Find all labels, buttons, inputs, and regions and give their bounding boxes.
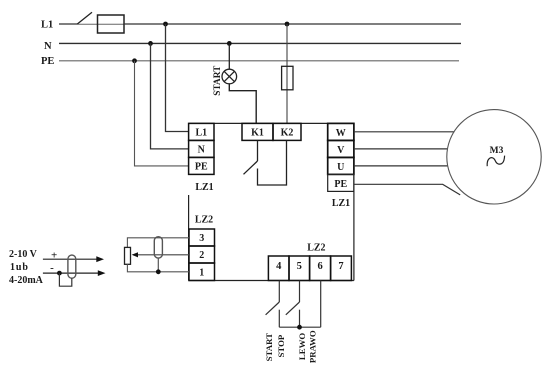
wire U to motor [354, 165, 448, 167]
wire pot wiper to terminal 2 [133, 254, 189, 256]
svg-text:L1: L1 [41, 19, 53, 30]
potentiometer R1 body [125, 247, 131, 264]
wire PE rail [59, 60, 459, 62]
svg-text:K2: K2 [281, 128, 294, 139]
terminal K1 [242, 123, 273, 140]
svg-text:6: 6 [317, 261, 322, 272]
breaker/fuse F1 box on L1 rail [98, 15, 125, 33]
wire input plus with arrow [43, 258, 98, 260]
terminal 5 [289, 256, 310, 281]
terminal 7 [331, 256, 352, 281]
wire capsule 2 to terminal 1 line [157, 258, 159, 272]
wire fuse branch to K2 [286, 24, 288, 123]
wire capsule return loop [59, 273, 71, 286]
svg-text:LZ2: LZ2 [195, 215, 213, 226]
svg-text:PE: PE [41, 56, 54, 67]
fuse F2 [282, 66, 293, 90]
wire common rail bottom [279, 326, 320, 328]
terminal N (LZ1 left) [189, 140, 214, 157]
wire L1 rail left segment [59, 23, 78, 25]
wire terminal 4 lower [278, 310, 280, 328]
svg-text:PE: PE [334, 179, 347, 190]
svg-text:M3: M3 [490, 146, 504, 156]
junction dot minus line [57, 271, 62, 276]
terminal PE (right) [328, 174, 354, 191]
terminal 4 [268, 256, 289, 281]
wire N rail [59, 42, 461, 44]
svg-text:7: 7 [338, 261, 343, 272]
switch contact K1-K2 internal [244, 140, 287, 185]
wire terminal 4 drop [278, 281, 280, 303]
wire pot bottom lead [127, 264, 189, 272]
wire N feed to terminal N [151, 43, 189, 148]
junction dot PE to terminal feed [132, 58, 137, 63]
junction dot common rail [297, 325, 302, 330]
junction dot L1 to fuse branch [285, 22, 290, 27]
terminal 2 [189, 246, 215, 263]
svg-text:2-10 V: 2-10 V [9, 249, 38, 260]
switch START/STOP blade [266, 302, 280, 315]
motor M3 [447, 110, 541, 204]
svg-text:V: V [337, 145, 345, 156]
wire V to motor [354, 148, 448, 150]
terminal V [328, 140, 354, 157]
svg-text:START: START [264, 333, 274, 362]
svg-text:PE: PE [195, 162, 208, 173]
svg-text:1: 1 [199, 267, 204, 278]
terminal 1 [189, 263, 215, 281]
wire terminal 5 lower [299, 310, 301, 328]
svg-text:5: 5 [297, 261, 302, 272]
wire L1 rail through breaker [78, 23, 124, 25]
terminal PE (LZ1 left) [189, 157, 214, 174]
svg-text:N: N [44, 41, 52, 52]
terminal W [328, 123, 354, 140]
svg-text:4: 4 [276, 261, 282, 272]
wire L1 rail right segment [124, 23, 461, 25]
switch LEWO/PRAWO blade [286, 302, 300, 315]
svg-text:1ub: 1ub [10, 262, 29, 273]
junction dot capsule 2 on terminal 1 line [156, 269, 161, 274]
wire PE to motor frame [354, 184, 460, 195]
lamp START indicator [222, 69, 237, 84]
component capsule 2 (jumper at terminals) [154, 237, 162, 258]
svg-text:LZ1: LZ1 [332, 198, 350, 209]
component capsule (input jumper) [68, 255, 76, 278]
wire terminal 5 drop [299, 281, 301, 303]
junction dot N to terminal feed [148, 41, 153, 46]
terminal 6 [310, 256, 331, 281]
svg-text:-: - [50, 262, 54, 274]
wire input minus with arrow [43, 272, 99, 274]
svg-text:3: 3 [199, 233, 204, 244]
switch Q1 blade on L1 rail [77, 12, 92, 24]
wire terminal 6 drop [320, 281, 322, 328]
svg-text:LZ2: LZ2 [307, 243, 325, 254]
terminal U [328, 157, 354, 174]
terminal K2 [273, 123, 301, 140]
wire lamp branch lower to K1 [229, 84, 256, 124]
junction dot N to lamp branch [227, 41, 232, 46]
svg-text:U: U [337, 162, 344, 173]
motor tilde symbol [487, 156, 504, 167]
pot wiper arrowhead [132, 252, 138, 257]
svg-text:LZ1: LZ1 [195, 182, 213, 193]
terminal L1 (LZ1 left) [189, 123, 214, 140]
svg-text:START: START [213, 65, 223, 96]
svg-text:L1: L1 [195, 128, 207, 139]
wire lamp branch upper [228, 43, 230, 69]
svg-text:2: 2 [199, 250, 204, 261]
terminal 3 [189, 229, 215, 246]
wire PE feed to terminal PE [135, 61, 189, 166]
svg-text:PRAWO: PRAWO [308, 330, 318, 363]
device block outline [189, 123, 354, 280]
svg-text:LEWO: LEWO [297, 333, 307, 361]
svg-text:W: W [336, 128, 346, 139]
wire W to motor [354, 131, 455, 133]
wire pot top to terminal 3 [127, 238, 189, 248]
svg-text:N: N [198, 145, 206, 156]
svg-text:K1: K1 [251, 128, 264, 139]
wire L1 feed to terminal L1 [166, 24, 189, 132]
svg-text:STOP: STOP [276, 334, 286, 357]
junction dot L1 to terminal feed [163, 22, 168, 27]
svg-text:4-20mA: 4-20mA [9, 275, 44, 286]
